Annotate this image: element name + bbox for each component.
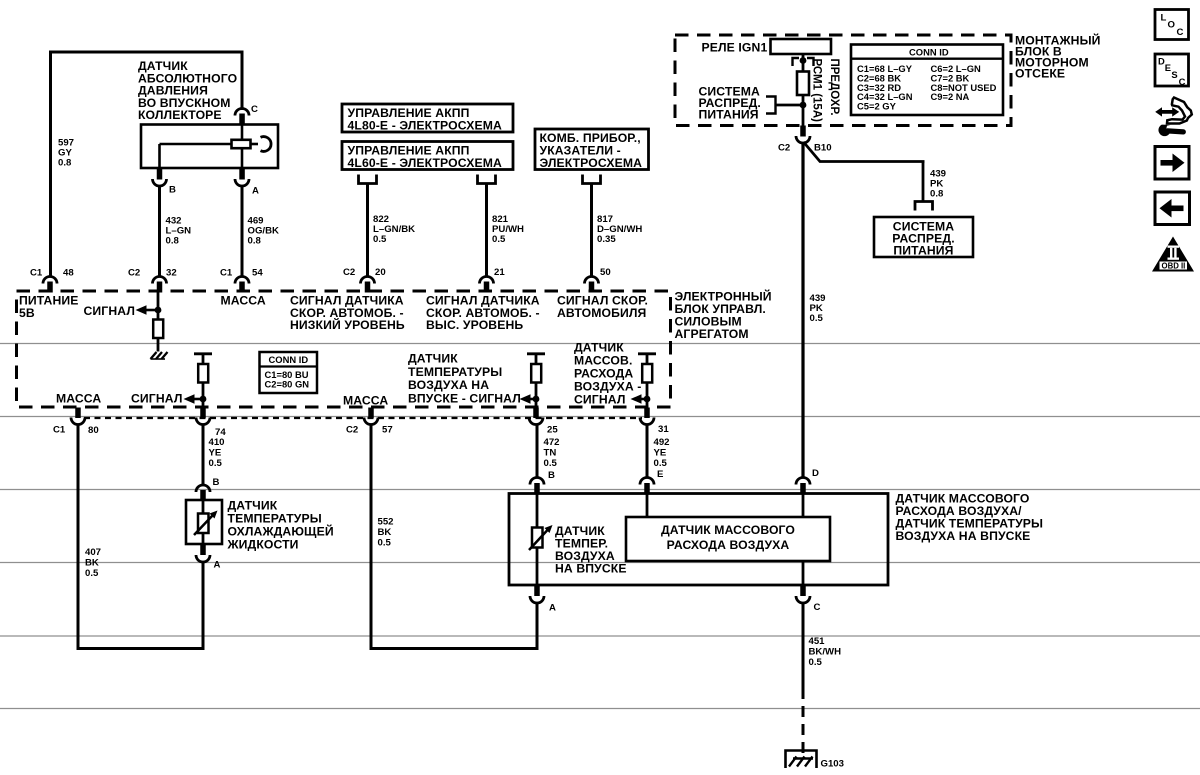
wire to MAP pin C	[241, 52, 244, 110]
connector pin C1 54	[220, 268, 263, 293]
connector pin E of MAF	[640, 469, 664, 494]
coolant temperature sensor box	[186, 500, 222, 544]
svg-text:0.5: 0.5	[373, 234, 387, 245]
svg-text:472: 472	[544, 437, 560, 448]
wire 472 TN from pin 25	[536, 424, 539, 479]
wire bracket to fuse junction	[776, 104, 804, 107]
row separator line 5	[0, 635, 1200, 637]
svg-text:C2: C2	[343, 267, 355, 278]
wire label 432 L-GN 0.8	[166, 216, 192, 247]
wire 410 YE from pin 74	[202, 424, 205, 486]
svg-text:МАССА: МАССА	[221, 294, 266, 308]
svg-text:410: 410	[209, 437, 225, 448]
junction on pin25 wire	[533, 396, 540, 403]
MAF inner box	[626, 517, 830, 561]
svg-text:ВОЗДУХА НА ВПУСКЕ: ВОЗДУХА НА ВПУСКЕ	[896, 529, 1031, 543]
ECU label	[675, 289, 772, 342]
svg-text:МАССА: МАССА	[343, 394, 388, 408]
coolant sensor internal wire	[202, 500, 205, 544]
ECU label VSS low	[290, 294, 405, 333]
wire label 597 GY 0.8	[58, 138, 74, 169]
wire 432 L-GN	[158, 185, 161, 278]
svg-text:C5=2 GY: C5=2 GY	[857, 101, 897, 112]
svg-text:0.8: 0.8	[58, 158, 72, 169]
svg-text:CONN ID: CONN ID	[269, 354, 309, 365]
wire 597 GY vertical	[49, 52, 52, 277]
ECU internal resistor R1	[153, 320, 163, 339]
connector pin C1 80	[53, 408, 99, 437]
svg-text:D: D	[812, 468, 819, 479]
svg-text:ЖИДКОСТИ: ЖИДКОСТИ	[227, 538, 299, 552]
wire 439 PK 0.5 main vertical	[801, 143, 804, 478]
MAF internal wire D	[802, 494, 805, 518]
connector pin C2 57	[346, 408, 393, 436]
svg-text:4L60-E - ЭЛЕКТРОСХЕМА: 4L60-E - ЭЛЕКТРОСХЕМА	[348, 156, 502, 170]
svg-text:TN: TN	[544, 448, 557, 459]
wire resistor to ground	[157, 338, 160, 352]
svg-text:4L80-E - ЭЛЕКТРОСХЕМА: 4L80-E - ЭЛЕКТРОСХЕМА	[348, 119, 502, 133]
wire T-bar to resistor R4	[646, 354, 649, 364]
svg-text:25: 25	[547, 425, 558, 436]
MAP internal vertical wire	[241, 124, 244, 168]
relay IGN1 box	[771, 39, 832, 54]
MAP internal horizontal wire	[160, 143, 233, 146]
bracket above power distribution box	[915, 202, 933, 211]
ECU internal resistor R3	[531, 364, 541, 383]
connector pin B of coolant sensor	[196, 477, 220, 500]
thermistor element of coolant sensor	[194, 511, 218, 536]
svg-text:ОТСЕКЕ: ОТСЕКЕ	[1015, 67, 1065, 81]
svg-text:ДАТЧИК: ДАТЧИК	[228, 499, 278, 513]
junction on pin31 wire	[644, 396, 651, 403]
wire label 492 YE 0.5	[654, 437, 670, 469]
ground G103	[786, 751, 844, 770]
wire 492 YE from pin 31	[646, 424, 649, 479]
icon LOC	[1155, 10, 1189, 40]
ECU label vehicle speed signal	[557, 294, 648, 320]
svg-text:0.8: 0.8	[930, 189, 944, 200]
wire label 439 PK 0.8	[930, 169, 946, 200]
icon back arrow	[1155, 192, 1190, 225]
ECU CONN ID table	[260, 352, 318, 393]
ECU internal chain pin 25: T-bar	[527, 352, 545, 355]
thermistor element of MAF IAT	[529, 525, 553, 550]
svg-text:СИГНАЛ: СИГНАЛ	[574, 393, 626, 407]
svg-text:АГРЕГАТОМ: АГРЕГАТОМ	[675, 327, 749, 341]
svg-text:0.5: 0.5	[85, 568, 99, 579]
wire 407 BK from pin 80	[77, 424, 80, 651]
svg-text:50: 50	[600, 267, 611, 278]
wire coolant A down	[202, 561, 205, 650]
svg-text:32: 32	[166, 268, 177, 279]
svg-text:A: A	[214, 560, 221, 571]
ECU internal chain pin 31: T-bar	[638, 352, 656, 355]
row separator line 6	[0, 708, 1200, 710]
wire label 822 L-GN/BK 0.5	[373, 214, 415, 245]
icon forward arrow	[1155, 147, 1189, 180]
connector pin C2 32	[128, 268, 177, 293]
svg-text:E: E	[1165, 62, 1171, 73]
connector pin A of coolant sensor	[196, 544, 221, 571]
bracket under 4L80 box wire	[478, 175, 496, 184]
svg-text:ДАТЧИК: ДАТЧИК	[408, 352, 458, 366]
connector pin 31	[640, 408, 669, 436]
wire label 552 BK 0.5	[378, 517, 394, 549]
svg-text:ТЕМПЕРАТУРЫ: ТЕМПЕРАТУРЫ	[228, 512, 322, 526]
row separator line 1	[0, 343, 1200, 345]
svg-text:BK: BK	[85, 558, 99, 569]
bracket to power distribution label	[766, 97, 776, 114]
connector pin C of MAF	[796, 585, 821, 613]
wire label 821 PU/WH 0.5	[492, 214, 524, 245]
fuse block label	[1015, 33, 1101, 81]
svg-text:ДАТЧИК МАССОВОГО: ДАТЧИК МАССОВОГО	[661, 523, 795, 537]
icon DESC	[1155, 54, 1189, 87]
arrow to pin25 wire	[520, 394, 537, 403]
wire MAF A down	[536, 602, 539, 650]
svg-text:НА ВПУСКЕ: НА ВПУСКЕ	[555, 562, 627, 576]
svg-text:ОХЛАЖДАЮЩЕЙ: ОХЛАЖДАЮЩЕЙ	[228, 524, 334, 539]
svg-text:РАСХОДА: РАСХОДА	[574, 367, 633, 381]
svg-text:0.5: 0.5	[378, 538, 392, 549]
ECU label ПИТАНИЕ 5В	[19, 294, 79, 321]
svg-text:ВОЗДУХА -: ВОЗДУХА -	[574, 380, 641, 394]
connector pin 50	[585, 267, 611, 293]
connector pin C1 48	[30, 268, 74, 293]
svg-text:C2: C2	[778, 143, 790, 154]
ECU internal chain pin 74: T-bar	[194, 352, 212, 355]
MAF internal wire E	[646, 494, 649, 518]
icon OBD II triangle	[1152, 237, 1194, 272]
svg-text:C: C	[251, 104, 258, 115]
wire top horizontal 5V feed	[49, 51, 244, 54]
wire label 469 OG/BK 0.8	[248, 216, 280, 247]
wire 451 dashed section	[802, 688, 805, 753]
MAF right label	[896, 492, 1044, 544]
wire T-bar to resistor	[202, 354, 205, 364]
svg-text:0.5: 0.5	[492, 234, 506, 245]
svg-text:A: A	[252, 186, 259, 197]
svg-text:L: L	[1161, 13, 1167, 24]
connector pin C of MAP sensor	[235, 104, 258, 125]
svg-text:ВЫС. УРОВЕНЬ: ВЫС. УРОВЕНЬ	[426, 318, 523, 332]
svg-text:0.8: 0.8	[248, 236, 262, 247]
svg-text:B: B	[213, 477, 220, 488]
ECU label IAT sensor signal	[408, 352, 521, 406]
connector pin B of MAP sensor	[153, 168, 177, 196]
svg-text:C: C	[814, 602, 821, 613]
coolant sensor label	[227, 499, 334, 552]
power distribution label in fuse block	[699, 85, 761, 122]
svg-text:20: 20	[375, 267, 386, 278]
CONN ID table of fuse block	[851, 45, 1003, 116]
connector pin A of MAP sensor	[235, 168, 259, 197]
svg-text:YE: YE	[209, 448, 222, 459]
MAP sensor box	[141, 125, 278, 169]
svg-text:31: 31	[658, 424, 669, 435]
svg-text:НИЗКИЙ УРОВЕНЬ: НИЗКИЙ УРОВЕНЬ	[290, 317, 405, 332]
svg-text:407: 407	[85, 547, 101, 558]
box 4L60-E transmission control	[342, 142, 513, 171]
svg-text:OBD II: OBD II	[1162, 262, 1186, 271]
svg-text:BK: BK	[378, 527, 392, 538]
connector pin 74	[196, 408, 226, 439]
svg-text:C2: C2	[346, 425, 358, 436]
MAP internal left wire down	[158, 144, 161, 168]
svg-text:5В: 5В	[19, 306, 35, 320]
row separator line 3	[0, 489, 1200, 491]
svg-text:B10: B10	[814, 143, 832, 154]
ECU internal resistor R4	[642, 364, 652, 383]
icon troubleshooting arrows and wrench	[1155, 98, 1192, 137]
ECU label СИГНАЛ with arrow	[84, 304, 159, 318]
svg-text:РАСХОДА ВОЗДУХА: РАСХОДА ВОЗДУХА	[667, 538, 790, 552]
svg-text:C1: C1	[53, 425, 66, 436]
svg-text:ПИТАНИЯ: ПИТАНИЯ	[699, 108, 759, 122]
wire fuse to B10	[802, 95, 805, 126]
svg-text:0.5: 0.5	[654, 458, 668, 469]
wire resistor R2 to pin 74	[202, 383, 205, 408]
MAF IAT label	[555, 524, 627, 576]
svg-text:B: B	[169, 185, 176, 196]
row separator line 2	[0, 416, 1200, 418]
MAF internal wire C	[802, 561, 805, 585]
ECU label VSS high	[426, 294, 540, 333]
wire 817 D-GN/WH	[590, 184, 593, 278]
junction on signal wire	[155, 307, 162, 314]
wire relay to fuse	[802, 54, 805, 72]
wire ground link horizontal left	[77, 647, 205, 650]
ECU internal chassis ground	[151, 352, 168, 359]
fuse PCM1 15A	[797, 72, 809, 96]
wire label 410 YE 0.5	[209, 437, 225, 469]
connector pin C2 20	[343, 267, 386, 293]
svg-text:ТЕМПЕРАТУРЫ: ТЕМПЕРАТУРЫ	[408, 365, 502, 379]
wire diagonal from B10	[804, 142, 925, 162]
box 4L80-E transmission control	[342, 104, 513, 133]
svg-text:21: 21	[494, 267, 505, 278]
svg-text:48: 48	[63, 268, 74, 279]
svg-text:0.5: 0.5	[209, 458, 223, 469]
svg-text:ДАТЧИК: ДАТЧИК	[574, 341, 624, 355]
MAF sensor box	[509, 494, 888, 586]
wire 822 L-GN/BK	[366, 184, 369, 278]
svg-text:A: A	[549, 603, 556, 614]
svg-text:B: B	[548, 470, 555, 481]
svg-text:C9=2 NA: C9=2 NA	[931, 91, 970, 102]
dotted connector row line	[84, 417, 642, 419]
svg-text:E: E	[657, 469, 664, 480]
connector pin D of MAF	[796, 468, 819, 494]
ECU dashed box	[17, 291, 671, 407]
wire 469 OG/BK	[241, 185, 244, 278]
ECU label СИГНАЛ bottom with arrow	[131, 392, 203, 406]
bracket under 4L60 box	[359, 175, 377, 184]
junction below fuse	[800, 102, 807, 109]
svg-text:0.35: 0.35	[597, 234, 616, 245]
ECU label MAF sensor signal	[574, 341, 641, 407]
svg-text:YE: YE	[654, 448, 667, 459]
svg-text:ПИТАНИЯ: ПИТАНИЯ	[893, 244, 953, 258]
connector pin 25	[529, 408, 558, 436]
svg-text:0.8: 0.8	[166, 236, 180, 247]
junction on pin74 wire	[200, 396, 207, 403]
svg-text:451: 451	[809, 636, 826, 647]
bracket under instrument cluster box	[583, 175, 601, 184]
MAF internal wire B	[536, 494, 539, 529]
svg-text:S: S	[1171, 69, 1177, 80]
svg-text:C1: C1	[30, 268, 43, 279]
box instrument cluster	[535, 129, 649, 170]
svg-text:54: 54	[252, 268, 263, 279]
wire 439 PK 0.8 vertical	[922, 162, 925, 202]
svg-text:АВТОМОБИЛЯ: АВТОМОБИЛЯ	[557, 306, 646, 320]
svg-text:0.5: 0.5	[544, 458, 558, 469]
wire label 472 TN 0.5	[544, 437, 560, 469]
wire label 439 PK 0.5	[810, 293, 826, 324]
svg-text:BK/WH: BK/WH	[809, 647, 842, 658]
svg-text:57: 57	[382, 425, 393, 436]
resistor element of MAP sensor	[232, 140, 251, 148]
wire resistor R3 to pin 25	[535, 383, 538, 408]
MAP sensor label	[138, 59, 237, 122]
connector pin B10 of fuse block	[778, 126, 832, 154]
connector pin A of MAF	[530, 585, 556, 614]
wire 552 BK from pin 57	[370, 424, 373, 651]
wire resistor R4 to pin 31	[646, 383, 649, 408]
ECU internal resistor R2	[198, 364, 208, 383]
svg-text:552: 552	[378, 517, 394, 528]
svg-text:РЕЛЕ IGN1: РЕЛЕ IGN1	[702, 41, 768, 55]
svg-text:80: 80	[88, 425, 99, 436]
svg-text:C1: C1	[220, 268, 233, 279]
arrow to pin31 wire	[631, 394, 648, 403]
wire label 451 BK/WH 0.5	[809, 636, 842, 668]
svg-text:МАССОВ.: МАССОВ.	[574, 354, 632, 368]
svg-text:СИГНАЛ: СИГНАЛ	[131, 392, 183, 406]
svg-text:МАССА: МАССА	[56, 392, 101, 406]
svg-text:C2: C2	[128, 268, 140, 279]
svg-text:СИГНАЛ: СИГНАЛ	[84, 304, 136, 318]
wire ground link horizontal right	[370, 647, 539, 650]
fuse holder clips	[793, 57, 814, 66]
power distribution system box	[874, 217, 973, 258]
svg-text:КОЛЛЕКТОРЕ: КОЛЛЕКТОРЕ	[138, 108, 222, 122]
svg-text:C2=80 GN: C2=80 GN	[265, 379, 310, 390]
svg-text:CONN ID: CONN ID	[909, 47, 949, 58]
wire T-bar to resistor R3	[535, 354, 538, 364]
svg-text:ВПУСКЕ - СИГНАЛ: ВПУСКЕ - СИГНАЛ	[408, 391, 521, 405]
svg-text:C: C	[1179, 76, 1186, 87]
svg-text:0.5: 0.5	[809, 657, 823, 668]
svg-text:ЭЛЕКТРОСХЕМА: ЭЛЕКТРОСХЕМА	[540, 156, 643, 170]
wire 451 BK/WH solid	[802, 602, 805, 691]
connector pin 21	[480, 267, 506, 293]
svg-text:ВОЗДУХА НА: ВОЗДУХА НА	[408, 378, 489, 392]
wire 821 PU/WH	[485, 184, 488, 278]
transducer arc symbol of MAP sensor	[251, 137, 272, 152]
svg-text:G103: G103	[821, 759, 844, 770]
ECU internal wire from pin 32	[157, 291, 160, 320]
svg-text:РСМ1 (15А): РСМ1 (15А)	[811, 59, 823, 123]
svg-text:ПРЕДОХР.: ПРЕДОХР.	[828, 59, 840, 116]
svg-text:492: 492	[654, 437, 670, 448]
svg-text:O: O	[1168, 20, 1176, 31]
wire label 407 BK 0.5	[85, 547, 101, 579]
underhood fuse block dashed box	[675, 35, 1011, 126]
connector pin B of MAF	[530, 470, 555, 494]
MAF internal wire B lower	[536, 548, 539, 586]
wire label 817 D-GN/WH 0.35	[597, 214, 642, 245]
row separator line 4	[0, 562, 1200, 564]
svg-text:0.5: 0.5	[810, 313, 824, 324]
svg-text:C: C	[1177, 27, 1184, 38]
